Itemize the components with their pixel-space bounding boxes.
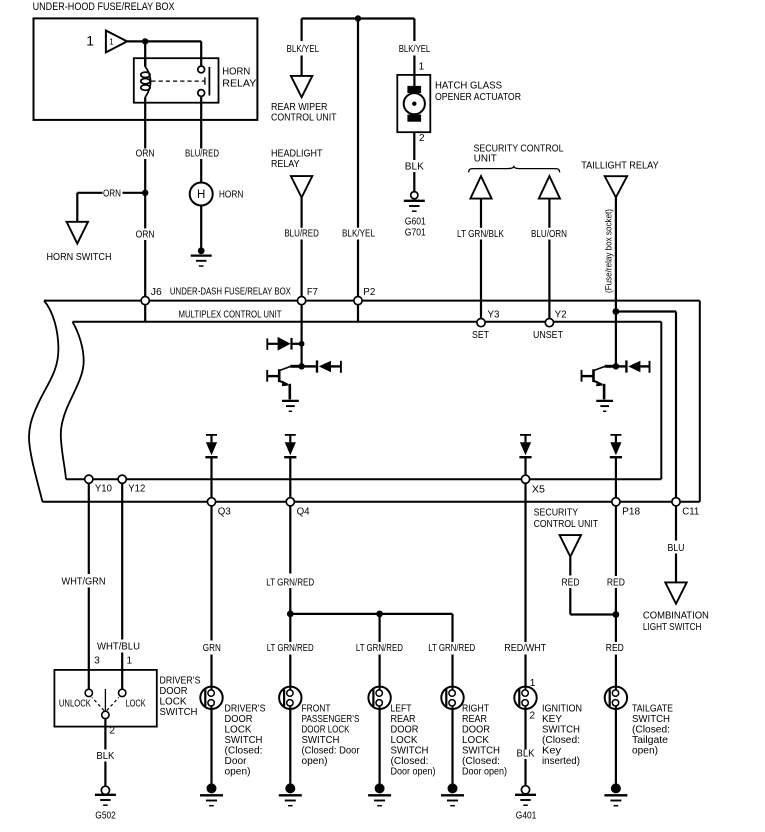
svg-text:2: 2 <box>109 726 115 737</box>
wire BLK hatch <box>413 132 415 160</box>
tailgate switch symbol <box>605 687 627 709</box>
ground driver door switch <box>207 783 217 793</box>
svg-text:BLK: BLK <box>405 161 424 173</box>
diode D5 to Q4 <box>285 434 296 436</box>
svg-text:C11: C11 <box>682 507 699 518</box>
driver door lock switch box <box>54 670 156 727</box>
svg-text:2: 2 <box>530 710 536 721</box>
svg-text:G601: G601 <box>405 216 426 227</box>
driver door switch symbol <box>200 687 222 709</box>
wire to hatch actuator <box>413 56 415 87</box>
svg-text:Y3: Y3 <box>488 310 500 321</box>
svg-text:LT GRN/RED: LT GRN/RED <box>356 642 403 654</box>
wire GRN from Q3 <box>210 506 212 641</box>
svg-text:RED/WHT: RED/WHT <box>504 642 546 654</box>
terminal X5 <box>521 475 529 483</box>
svg-text:P18: P18 <box>622 507 640 518</box>
horn relay coil <box>144 58 146 66</box>
wire WHT/GRN from Y10 <box>88 483 90 574</box>
svg-text:G701: G701 <box>405 228 426 239</box>
svg-text:RED: RED <box>606 642 624 654</box>
svg-text:BLU/RED: BLU/RED <box>185 148 219 160</box>
wire ORN from relay coil <box>144 97 146 148</box>
ground G401 <box>521 786 529 794</box>
wire left rear switch to ground <box>379 709 381 784</box>
svg-text:ORN: ORN <box>136 228 155 240</box>
wire BLK/YEL middle <box>357 19 359 228</box>
svg-text:Y2: Y2 <box>555 310 567 321</box>
wire driver door switch to ground <box>210 709 212 784</box>
svg-text:RED: RED <box>607 576 625 588</box>
node collector left <box>299 341 305 347</box>
wire ORN continues <box>144 159 146 188</box>
ignition key switch symbol <box>514 687 536 709</box>
security connector triangle UNSET <box>539 176 560 199</box>
terminal Q3 <box>207 498 215 506</box>
wire LT GRN/RED from Q4 <box>289 506 291 574</box>
wire ORN to J6 <box>144 240 146 297</box>
svg-text:LT GRN/RED: LT GRN/RED <box>428 642 475 654</box>
svg-text:RELAY: RELAY <box>222 77 256 89</box>
svg-text:Q3: Q3 <box>218 507 231 518</box>
svg-text:SET: SET <box>472 329 489 341</box>
ground G502 <box>101 786 109 794</box>
svg-text:1: 1 <box>127 655 133 666</box>
svg-text:ORN: ORN <box>136 148 155 160</box>
junction node left rear <box>376 611 383 618</box>
svg-text:X5: X5 <box>532 484 545 495</box>
wire top bus BLK/YEL <box>302 19 415 42</box>
svg-text:HORN: HORN <box>219 189 244 201</box>
svg-text:inserted): inserted) <box>542 755 580 767</box>
wire RED from P18 <box>615 506 617 576</box>
wires down to door switches <box>290 655 452 687</box>
svg-text:Door open): Door open) <box>391 766 436 778</box>
horn switch triangle <box>67 222 88 244</box>
svg-text:CONTROL UNIT: CONTROL UNIT <box>534 518 599 530</box>
wire BLU/RED to F7 <box>301 198 303 228</box>
transistor Q1 (left) <box>290 365 301 368</box>
svg-text:G401: G401 <box>516 811 537 822</box>
svg-text:Y12: Y12 <box>128 484 145 495</box>
rear wiper connector triangle <box>291 76 312 97</box>
diode D1 into left transistor collector <box>266 338 268 350</box>
svg-text:RELAY: RELAY <box>271 158 300 170</box>
node collector right <box>613 363 619 369</box>
horn relay dashed actuation line <box>151 80 205 82</box>
svg-text:F7: F7 <box>307 287 318 298</box>
security control unit triangle (bottom) <box>560 535 581 557</box>
driver lock switch contacts <box>85 689 92 696</box>
svg-text:COMBINATION: COMBINATION <box>643 609 709 621</box>
svg-text:Door open): Door open) <box>462 766 507 778</box>
svg-text:LIGHT SWITCH: LIGHT SWITCH <box>643 621 702 633</box>
diode D4 to Q3 <box>206 434 217 436</box>
wire BLK ignition <box>524 709 526 750</box>
svg-text:HATCH GLASS: HATCH GLASS <box>435 79 502 91</box>
front passenger door switch symbol <box>279 687 301 709</box>
wire BLU/ORN <box>548 199 550 228</box>
wire branch to horn switch <box>123 192 146 194</box>
svg-text:Q4: Q4 <box>297 507 310 518</box>
wire to rear wiper <box>301 56 303 76</box>
terminal Y3 <box>477 319 485 327</box>
wire BLK driver switch <box>104 719 106 750</box>
svg-text:3: 3 <box>94 655 100 666</box>
wire RED from security unit <box>569 557 571 576</box>
svg-text:1: 1 <box>109 38 114 47</box>
svg-text:G502: G502 <box>95 811 116 822</box>
svg-text:WHT/GRN: WHT/GRN <box>62 576 106 588</box>
right rear door switch symbol <box>441 687 463 709</box>
wire right rear switch to ground <box>451 709 453 784</box>
multiplex control unit bottom edge <box>66 478 661 480</box>
terminal Y10 <box>85 475 93 483</box>
terminal F7 <box>301 305 303 367</box>
svg-text:P2: P2 <box>363 287 375 298</box>
svg-text:BLK: BLK <box>96 750 114 762</box>
diode D3 into right transistor node <box>616 365 626 367</box>
svg-text:WHT/BLU: WHT/BLU <box>97 640 140 652</box>
ground horn <box>198 247 205 254</box>
wire BLU from C11 <box>675 506 677 541</box>
svg-text:UNDER-HOOD FUSE/RELAY BOX: UNDER-HOOD FUSE/RELAY BOX <box>33 1 176 13</box>
svg-text:TAILLIGHT RELAY: TAILLIGHT RELAY <box>581 159 659 171</box>
under-dash box torn left edge <box>29 301 58 502</box>
ground right transistor <box>596 400 613 402</box>
taillight relay triangle <box>605 176 627 197</box>
wire branch to rear door switches <box>290 614 452 642</box>
wire branch taillight to C11 <box>616 312 676 498</box>
svg-text:LT GRN/RED: LT GRN/RED <box>267 642 314 654</box>
svg-text:UNDER-DASH FUSE/RELAY BOX: UNDER-DASH FUSE/RELAY BOX <box>170 286 291 298</box>
junction node RED <box>613 611 620 618</box>
ground G601/G701 <box>411 192 418 199</box>
terminal P18 <box>612 498 620 506</box>
svg-text:BLK: BLK <box>517 747 535 759</box>
svg-text:BLK/YEL: BLK/YEL <box>287 43 320 55</box>
diode D6 to X5 <box>520 434 531 436</box>
wire WHT/BLU from Y12 <box>121 483 123 639</box>
svg-text:BLK/YEL: BLK/YEL <box>399 43 431 55</box>
wire LT GRN/BLK <box>480 199 482 228</box>
svg-text:open): open) <box>302 755 328 767</box>
transistor Q2 (right) <box>605 365 616 368</box>
svg-text:CONTROL UNIT: CONTROL UNIT <box>271 112 337 124</box>
diode D7 to P18 <box>610 434 621 436</box>
svg-text:MULTIPLEX CONTROL UNIT: MULTIPLEX CONTROL UNIT <box>179 308 282 320</box>
ground front passenger switch <box>285 783 295 793</box>
svg-text:UNSET: UNSET <box>533 329 563 341</box>
svg-text:UNLOCK: UNLOCK <box>59 699 91 710</box>
terminal P2 <box>357 305 359 322</box>
wire front passenger switch to ground <box>289 709 291 784</box>
hatch actuator motor <box>407 86 421 93</box>
svg-text:HORN: HORN <box>222 65 250 77</box>
svg-text:GRN: GRN <box>203 642 221 654</box>
terminal Q4 <box>286 498 294 506</box>
svg-text:BLU/ORN: BLU/ORN <box>531 228 567 240</box>
under-dash fuse/relay box top edge <box>44 300 700 302</box>
diode D2 from left transistor node <box>302 365 316 367</box>
svg-text:(Fuse/relay box socket): (Fuse/relay box socket) <box>604 209 615 293</box>
svg-text:UNIT: UNIT <box>474 152 498 164</box>
under-dash fuse/relay box right edge <box>699 301 701 502</box>
ground left rear switch <box>375 783 385 793</box>
junction node <box>142 38 148 44</box>
connector triangle 1 <box>106 31 127 53</box>
junction node LT GRN/RED <box>287 611 294 618</box>
svg-text:SECURITY: SECURITY <box>534 507 579 519</box>
multiplex control unit top edge <box>73 321 662 323</box>
svg-text:J6: J6 <box>151 287 162 298</box>
horn relay contact circles <box>198 66 205 73</box>
svg-text:1: 1 <box>419 62 425 73</box>
horn relay box <box>134 58 219 102</box>
driver lock switch common <box>104 689 106 711</box>
svg-text:LT GRN/BLK: LT GRN/BLK <box>457 228 504 240</box>
terminal Y12 <box>118 475 126 483</box>
terminal J6 <box>144 305 146 322</box>
junction node taillight <box>613 308 620 315</box>
svg-text:ORN: ORN <box>103 188 121 200</box>
under-hood fuse/relay box outline <box>34 18 258 120</box>
security connector triangle SET <box>470 176 491 199</box>
svg-text:open): open) <box>632 745 658 757</box>
ground left transistor <box>282 400 299 402</box>
svg-text:BLK/YEL: BLK/YEL <box>342 228 375 240</box>
brace over security connectors <box>469 166 560 173</box>
junction node ORN <box>142 190 148 196</box>
junction node top <box>355 15 361 21</box>
svg-text:SWITCH: SWITCH <box>160 706 198 718</box>
headlight relay triangle <box>291 176 312 197</box>
wire from connector to horn relay <box>127 41 201 66</box>
multiplex control unit right edge <box>660 322 662 479</box>
wire tailgate switch to ground <box>615 709 617 784</box>
svg-text:BLU/RED: BLU/RED <box>284 228 319 240</box>
horn symbol <box>190 183 213 206</box>
left rear door switch symbol <box>368 687 390 709</box>
svg-text:HORN SWITCH: HORN SWITCH <box>47 251 112 263</box>
svg-text:RED: RED <box>562 576 580 588</box>
horn relay armature bar <box>208 67 210 96</box>
terminal Y2 <box>545 319 553 327</box>
wire BLU/RED from relay contact <box>200 96 202 148</box>
svg-text:Y10: Y10 <box>95 484 112 495</box>
svg-text:BLU: BLU <box>668 542 685 554</box>
under-dash fuse/relay box bottom edge <box>43 501 700 503</box>
hatch glass opener actuator box <box>397 75 430 132</box>
terminal C11 <box>672 498 680 506</box>
wire from taillight junction to right transistor node <box>615 312 617 367</box>
svg-text:2: 2 <box>419 133 425 144</box>
wire taillight relay down <box>615 197 617 311</box>
combination light switch triangle <box>665 582 686 603</box>
svg-text:open): open) <box>225 766 251 778</box>
ground tailgate switch <box>611 783 621 793</box>
ground right rear switch <box>448 783 458 793</box>
multiplex box torn left edge <box>61 322 84 479</box>
svg-text:LOCK: LOCK <box>126 699 146 710</box>
svg-text:OPENER ACTUATOR: OPENER ACTUATOR <box>435 91 521 103</box>
svg-text:LT GRN/RED: LT GRN/RED <box>266 576 314 588</box>
wire horn to ground <box>200 206 202 249</box>
svg-text:1: 1 <box>86 32 94 48</box>
wire RED/WHT from X5 <box>524 483 526 642</box>
svg-text:H: H <box>197 189 205 201</box>
